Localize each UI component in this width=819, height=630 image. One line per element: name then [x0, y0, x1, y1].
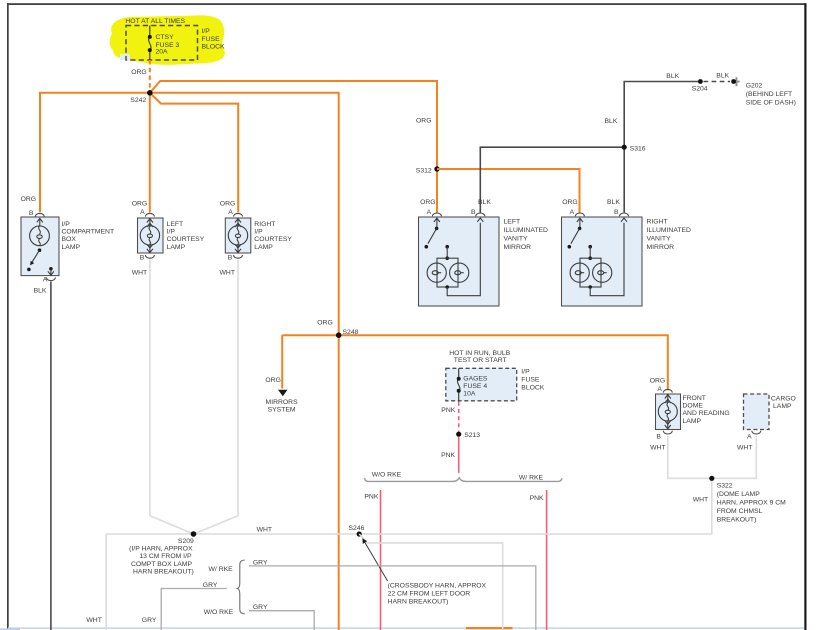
svg-text:DOME: DOME	[683, 403, 704, 410]
svg-text:S248: S248	[343, 329, 359, 336]
wire ORG S312 to right vanity mirror	[437, 169, 580, 213]
svg-text:WHT: WHT	[257, 527, 272, 534]
svg-text:LAMP: LAMP	[254, 244, 273, 251]
svg-text:BLOCK: BLOCK	[202, 44, 226, 51]
svg-text:ORG: ORG	[131, 69, 146, 76]
svg-text:WHT: WHT	[737, 445, 752, 452]
lamp I/P compartment box lamp	[21, 196, 115, 295]
callout arrow crossbody harn note	[362, 538, 486, 605]
svg-text:(I/P HARN, APPROX: (I/P HARN, APPROX	[129, 546, 193, 553]
wire GRY W/ RKE branch	[249, 560, 536, 630]
svg-text:LEFT: LEFT	[504, 218, 521, 225]
svg-text:A: A	[228, 209, 233, 216]
svg-text:W/O RKE: W/O RKE	[204, 609, 234, 616]
wire BLK S316 down to right vanity mirror pin B	[623, 147, 625, 212]
svg-text:GRY: GRY	[203, 582, 218, 589]
svg-text:LAMP: LAMP	[167, 244, 186, 251]
mirror right illuminated vanity mirror	[562, 199, 692, 306]
svg-text:COURTESY: COURTESY	[254, 236, 292, 243]
svg-text:A: A	[657, 386, 662, 393]
wire BLK compartment box lamp to bottom of page	[50, 282, 52, 630]
node S213	[456, 432, 480, 439]
svg-text:I/P: I/P	[62, 221, 71, 228]
wire ORG S248 to mirrors system	[265, 335, 282, 388]
node S312	[416, 117, 440, 174]
off-page arrow MIRRORS SYSTEM	[266, 390, 299, 414]
svg-text:A: A	[747, 434, 752, 441]
svg-text:S204: S204	[692, 85, 708, 92]
svg-text:S242: S242	[130, 97, 146, 104]
svg-text:GAGES: GAGES	[463, 376, 488, 383]
svg-text:LAMP: LAMP	[683, 418, 702, 425]
svg-text:VANITY: VANITY	[504, 235, 529, 242]
wire ORG S242 down to left courtesy lamp	[149, 93, 151, 213]
wire GRY from bottom up to brace	[142, 582, 227, 630]
svg-text:22 CM FROM LEFT DOOR: 22 CM FROM LEFT DOOR	[388, 591, 471, 598]
lamp right I/P courtesy lamp	[220, 200, 293, 276]
svg-text:S316: S316	[630, 145, 646, 152]
node S204	[692, 79, 708, 92]
svg-text:FUSE 4: FUSE 4	[463, 383, 487, 390]
wire BLK dashed S204 to G202	[704, 73, 731, 82]
svg-text:LEFT: LEFT	[167, 221, 184, 228]
svg-text:A: A	[427, 209, 432, 216]
svg-text:GRY: GRY	[142, 617, 157, 624]
svg-text:FRONT: FRONT	[683, 395, 706, 402]
svg-text:MIRRORS: MIRRORS	[266, 399, 299, 406]
svg-text:B: B	[656, 434, 661, 441]
svg-text:ORG: ORG	[317, 320, 332, 327]
svg-text:ORG: ORG	[650, 377, 665, 384]
svg-text:(CROSSBODY HARN, APPROX: (CROSSBODY HARN, APPROX	[388, 583, 487, 590]
svg-text:SYSTEM: SYSTEM	[268, 406, 296, 413]
lamp cargo lamp (dashed future option)	[737, 394, 796, 452]
svg-text:PNK: PNK	[441, 452, 455, 459]
mirror left illuminated vanity mirror	[419, 199, 549, 306]
ground G202 (behind left side of dash)	[731, 77, 796, 106]
wire ORG S242 diagonal down-right to right courtesy lamp	[150, 93, 238, 213]
svg-text:W/O RKE: W/O RKE	[372, 471, 402, 478]
svg-text:LAMP: LAMP	[62, 244, 81, 251]
svg-text:MIRROR: MIRROR	[504, 244, 532, 251]
wire PNK W/O RKE branch to bottom	[364, 490, 380, 630]
svg-text:ORG: ORG	[562, 199, 577, 206]
svg-text:WHT: WHT	[693, 497, 708, 504]
wire WHT S322 down to main run and left to bottom corner	[106, 478, 712, 630]
svg-text:WHT: WHT	[220, 269, 235, 276]
svg-text:SIDE OF DASH): SIDE OF DASH)	[746, 99, 796, 106]
svg-text:(BEHIND LEFT: (BEHIND LEFT	[746, 91, 792, 98]
wire ORG S248 horizontal run to front dome lamp	[282, 335, 668, 390]
svg-text:GRY: GRY	[253, 560, 268, 567]
svg-text:BOX: BOX	[62, 236, 77, 243]
svg-text:ILLUMINATED: ILLUMINATED	[647, 227, 692, 234]
svg-text:COURTESY: COURTESY	[167, 236, 205, 243]
svg-text:FROM CHMSL: FROM CHMSL	[717, 508, 763, 515]
svg-text:S213: S213	[464, 432, 480, 439]
svg-text:S312: S312	[416, 167, 432, 174]
svg-text:HARN BREAKOUT): HARN BREAKOUT)	[388, 599, 449, 606]
svg-text:BLK: BLK	[666, 73, 679, 80]
svg-text:S209: S209	[178, 538, 194, 545]
svg-text:B: B	[614, 209, 619, 216]
svg-text:HARN BREAKOUT): HARN BREAKOUT)	[133, 568, 194, 575]
svg-text:ORG: ORG	[21, 196, 36, 203]
svg-text:W/ RKE: W/ RKE	[519, 474, 544, 481]
svg-text:ORG: ORG	[220, 200, 235, 207]
fuse F2 GAGES FUSE 4 10A in I/P fuse block	[446, 350, 545, 402]
svg-text:BLOCK: BLOCK	[521, 384, 545, 391]
svg-text:ORG: ORG	[416, 117, 431, 124]
wire ORG dashed from fuse to S242	[131, 60, 150, 93]
svg-text:MIRROR: MIRROR	[647, 244, 675, 251]
node S242	[130, 90, 152, 104]
wire PNK W/ RKE branch to bottom	[530, 490, 547, 630]
node S316	[622, 145, 646, 153]
svg-text:ORG: ORG	[132, 200, 147, 207]
svg-text:BLK: BLK	[605, 118, 618, 125]
svg-text:BLK: BLK	[607, 199, 620, 206]
svg-text:PNK: PNK	[441, 407, 455, 414]
svg-text:S246: S246	[349, 525, 365, 532]
svg-text:HARN, APPROX 9 CM: HARN, APPROX 9 CM	[717, 499, 786, 506]
svg-text:WHT: WHT	[132, 269, 147, 276]
svg-text:FUSE: FUSE	[202, 36, 221, 43]
svg-text:VANITY: VANITY	[647, 235, 672, 242]
wire WHT right courtesy lamp to S209	[194, 260, 239, 535]
svg-text:A: A	[43, 276, 48, 283]
svg-text:10A: 10A	[463, 391, 476, 398]
svg-text:ORG: ORG	[265, 377, 280, 384]
svg-text:20A: 20A	[156, 48, 169, 55]
node S246	[349, 525, 365, 537]
svg-text:BLK: BLK	[34, 288, 47, 295]
svg-text:CARGO: CARGO	[771, 395, 796, 402]
svg-text:RIGHT: RIGHT	[254, 221, 275, 228]
svg-text:COMPARTMENT: COMPARTMENT	[62, 229, 115, 236]
svg-text:(DOME LAMP: (DOME LAMP	[717, 491, 761, 498]
svg-text:W/ RKE: W/ RKE	[209, 566, 234, 573]
svg-text:COMPT BOX LAMP: COMPT BOX LAMP	[131, 561, 193, 568]
svg-text:RIGHT: RIGHT	[647, 218, 668, 225]
svg-text:B: B	[140, 254, 145, 261]
svg-text:WHT: WHT	[86, 617, 101, 624]
svg-text:13 CM FROM I/P: 13 CM FROM I/P	[139, 553, 192, 560]
svg-text:PNK: PNK	[530, 495, 544, 502]
wire ORG S242 right to S248 and down to bottom	[150, 93, 339, 630]
svg-text:AND READING: AND READING	[683, 410, 730, 417]
svg-text:BLK: BLK	[478, 199, 491, 206]
svg-text:I/P: I/P	[521, 369, 530, 376]
fuse F1 CTSY FUSE 3 20A in I/P fuse block	[120, 18, 225, 60]
svg-text:S322: S322	[717, 482, 733, 489]
svg-text:FUSE: FUSE	[521, 377, 540, 384]
svg-text:HOT AT ALL TIMES: HOT AT ALL TIMES	[125, 18, 185, 25]
svg-text:WHT: WHT	[650, 445, 665, 452]
wire BLK S316 up and over to S204	[605, 73, 701, 147]
lamp left I/P courtesy lamp	[132, 200, 205, 276]
svg-text:ILLUMINATED: ILLUMINATED	[504, 227, 549, 234]
svg-text:LAMP: LAMP	[773, 403, 792, 410]
svg-text:HOT IN RUN, BULB: HOT IN RUN, BULB	[449, 350, 511, 357]
svg-text:ORG: ORG	[420, 199, 435, 206]
wire ORG S242 left then down to I/P compartment box lamp	[40, 93, 150, 213]
node S322	[693, 476, 786, 524]
svg-text:B: B	[471, 209, 476, 216]
brace GRY alternates W/ RKE vs W/O RKE	[204, 560, 245, 616]
wire WHT left courtesy lamp to S209	[150, 260, 194, 535]
svg-text:B: B	[228, 254, 233, 261]
wire GRY W/O RKE branch	[249, 604, 314, 630]
svg-text:PNK: PNK	[364, 493, 378, 500]
highlight (yellow marker over CTSY fuse)	[110, 15, 225, 65]
svg-text:A: A	[570, 209, 575, 216]
node S209	[129, 531, 196, 575]
svg-text:A: A	[140, 209, 145, 216]
svg-text:B: B	[29, 210, 34, 217]
node S248	[317, 320, 358, 339]
wire ORG S242 diagonal up-right to S312 and left vanity mirror	[150, 81, 437, 213]
wire WHT cargo lamp to S322	[712, 436, 757, 479]
wire BLK left vanity mirror pin B up to S316	[480, 147, 624, 212]
brace PNK alternates W/O RKE vs W/ RKE	[365, 471, 562, 481]
svg-text:GRY: GRY	[253, 604, 268, 611]
svg-text:G202: G202	[746, 82, 763, 89]
wire WHT S246 branch down right to bottom	[359, 534, 503, 630]
wire PNK dashed fuse to S213	[441, 402, 458, 435]
svg-text:BREAKOUT): BREAKOUT)	[717, 516, 757, 523]
svg-text:TEST OR START: TEST OR START	[454, 357, 507, 364]
svg-text:I/P: I/P	[202, 28, 211, 35]
lamp front dome and reading lamp	[650, 377, 730, 451]
wire PNK S213 down to brace	[441, 437, 459, 473]
svg-text:I/P: I/P	[167, 229, 176, 236]
svg-text:CTSY: CTSY	[156, 34, 175, 41]
svg-text:I/P: I/P	[254, 229, 263, 236]
wire WHT dome lamp to S322	[668, 436, 712, 479]
svg-text:BLK: BLK	[716, 73, 729, 80]
